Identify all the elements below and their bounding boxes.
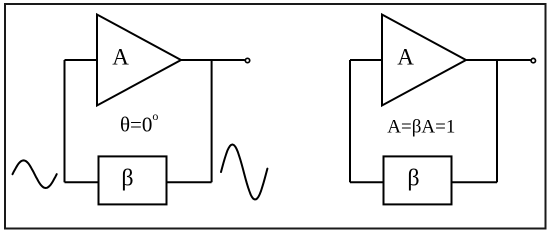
svg-text:A: A: [112, 45, 129, 70]
svg-text:β: β: [407, 165, 419, 191]
svg-text:A: A: [397, 45, 414, 70]
svg-text:A=βA=1: A=βA=1: [387, 117, 455, 138]
svg-text:β: β: [121, 165, 133, 191]
